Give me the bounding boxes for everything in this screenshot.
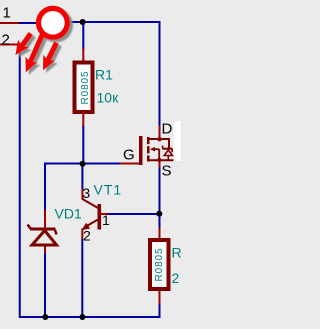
resistor R1 body <box>75 63 93 113</box>
pin 2 (left pin stub) <box>0 44 18 46</box>
pin MOSFET drain <box>159 126 161 140</box>
gate bar <box>139 136 143 165</box>
pin VT1 base (1) <box>101 213 108 215</box>
svg-text:D: D <box>162 121 173 138</box>
pin MOSFET source <box>159 160 161 168</box>
body diode anode to source <box>167 156 169 161</box>
wire left vertical down to bottom <box>17 45 160 318</box>
light arrow 2 <box>30 35 43 63</box>
drain node dot <box>157 137 161 141</box>
transistor VT1 <box>82 199 102 230</box>
pin R1 top <box>82 48 84 62</box>
light arrow 3 <box>47 43 56 62</box>
wire gate net horizontal <box>45 163 121 165</box>
light arrow 1 <box>21 33 31 47</box>
svg-text:1: 1 <box>3 5 11 22</box>
svg-text:R0805: R0805 <box>154 248 165 282</box>
svg-text:2к: 2к <box>172 270 182 286</box>
wire VT1 emitter to ground <box>81 239 83 318</box>
substrate arrow <box>150 147 155 152</box>
resistor R2 body <box>150 240 169 289</box>
wire lamp right to top-right corner <box>68 21 161 23</box>
svg-text:R0805: R0805 <box>80 71 91 105</box>
white rounded rect at right edge <box>174 121 188 161</box>
wire pin1 to lamp <box>19 22 38 24</box>
wire junction down to VT1 collector <box>81 164 83 190</box>
junction dot gate net <box>80 161 86 167</box>
wire gate net down to VD1 <box>44 163 46 211</box>
MOSFET (VT2) <box>139 136 173 165</box>
drain lead <box>149 139 170 149</box>
VT1 base bar <box>98 204 102 230</box>
wire VT1 base to R2 top junction <box>108 213 161 215</box>
pin R2 bottom <box>159 290 161 305</box>
body diode cathode bar <box>162 148 172 150</box>
wire VD1 bottom to ground <box>44 253 46 318</box>
wire R1 bottom to gate junction <box>82 126 84 165</box>
pin R2 top <box>159 228 161 241</box>
VT1 emitter diagonal with arrow <box>85 220 98 228</box>
pin VT1 collector (3) <box>81 189 83 200</box>
svg-text:VT1: VT1 <box>94 182 123 198</box>
pin VT1 emitter (2) <box>81 229 83 241</box>
svg-text:S: S <box>162 163 172 180</box>
svg-text:1: 1 <box>102 212 110 228</box>
svg-text:2: 2 <box>83 228 91 244</box>
VT1 collector diagonal <box>82 199 98 208</box>
pin 1 (top-left pin stub) <box>0 22 20 24</box>
lamp ring <box>39 8 68 37</box>
svg-text:G: G <box>123 147 135 164</box>
channel segment bottom <box>147 155 150 161</box>
wire MOSFET source to R2 junction <box>159 167 161 215</box>
zener diode VD1 <box>28 225 57 246</box>
svg-text:10к: 10к <box>97 90 120 106</box>
pin MOSFET gate <box>121 163 140 165</box>
channel segment top <box>147 137 150 144</box>
wire R1 top from junction <box>82 21 84 49</box>
junction dot ground emitter <box>79 314 85 320</box>
junction dot top (lamp/R1) <box>80 19 86 25</box>
svg-text:VD1: VD1 <box>55 206 82 222</box>
wire R2 junction down <box>159 213 161 228</box>
pin VD1 top <box>44 210 46 229</box>
wire right vertical drain <box>159 21 161 126</box>
svg-text:3: 3 <box>82 185 90 201</box>
junction dot ground VD1 <box>42 314 48 320</box>
svg-text:R1: R1 <box>95 67 113 83</box>
body diode triangle <box>164 150 172 156</box>
source lead <box>148 159 173 161</box>
channel segment middle <box>147 146 150 153</box>
wire bottom right up to R2 <box>159 304 161 318</box>
junction dot base/R2 <box>156 211 162 217</box>
lamp circle with light arrows (red, drop shadow) <box>15 8 67 72</box>
substrate node dot <box>157 158 161 162</box>
svg-text:2: 2 <box>2 32 10 49</box>
pin R1 bottom <box>82 113 84 128</box>
pin VD1 bottom <box>44 246 46 255</box>
svg-text:R2: R2 <box>172 245 182 261</box>
